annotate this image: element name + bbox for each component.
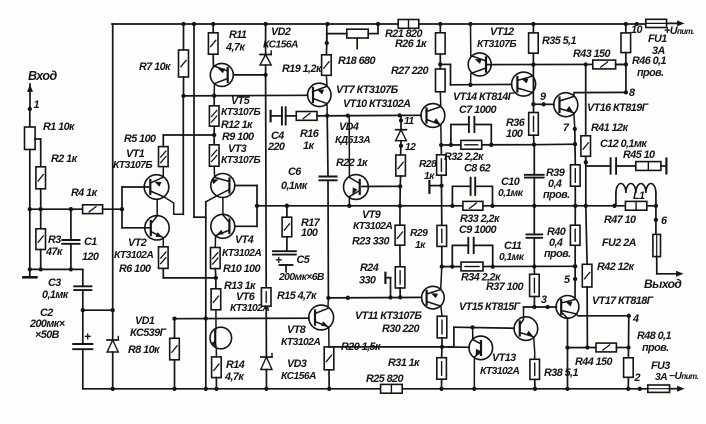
label VT10 pair — [343, 98, 411, 110]
svg-text:VD2: VD2 — [271, 26, 291, 38]
wire R15 to VD3 — [265, 306, 267, 357]
svg-text:С9 1000: С9 1000 — [459, 224, 497, 236]
svg-text:R24: R24 — [360, 262, 379, 274]
wire R22 node to mid wire — [398, 186, 402, 208]
resistor R44 — [575, 343, 629, 368]
svg-text:С8 62: С8 62 — [464, 163, 491, 175]
svg-text:47к: 47к — [45, 246, 63, 258]
svg-text:VT4: VT4 — [235, 234, 254, 246]
wire R21/R26 label — [0, 0, 1, 1]
capacitor C9 — [452, 224, 496, 267]
svg-text:VD3: VD3 — [287, 358, 307, 370]
wire +rail left vertical — [112, 24, 114, 310]
svg-text:VT10 КТ3102А: VT10 КТ3102А — [343, 98, 411, 110]
resistor R2 — [36, 153, 78, 189]
svg-text:VT14 КТ814Г: VT14 КТ814Г — [453, 91, 516, 103]
svg-text:R42 12к: R42 12к — [597, 261, 635, 273]
wire R42 to R44 node — [585, 287, 589, 350]
wire VT8 base line — [172, 316, 309, 321]
wire VT5 base to VD2 node — [233, 73, 267, 77]
resistor R28 — [419, 145, 446, 182]
svg-text:R6 100: R6 100 — [119, 263, 151, 275]
transistor VT2 — [114, 199, 169, 261]
svg-text:R26 1к: R26 1к — [395, 38, 427, 50]
resistor R35 — [529, 24, 577, 53]
capacitor C10 — [498, 145, 544, 206]
svg-text:КТ3102А: КТ3102А — [480, 366, 519, 377]
svg-text:VT11 КТ3107Б: VT11 КТ3107Б — [355, 310, 422, 322]
resistor R9 — [209, 131, 254, 166]
svg-text:0,1мк: 0,1мк — [498, 188, 524, 199]
svg-text:VT7 КТ3107Б: VT7 КТ3107Б — [336, 84, 399, 96]
wire R39 to output wire — [574, 186, 576, 206]
label R23 — [352, 236, 390, 248]
transistor VT14 — [453, 72, 536, 103]
resistor R6 — [119, 247, 168, 275]
svg-text:+: + — [275, 253, 282, 267]
wire R1 to lower node — [28, 150, 32, 272]
wire VT17 collector to rail — [565, 318, 569, 389]
svg-text:1: 1 — [34, 99, 40, 111]
svg-text:2: 2 — [634, 372, 641, 384]
transistor VT7 — [308, 75, 399, 115]
svg-text:С7 1000: С7 1000 — [459, 104, 497, 116]
wire node7 down to feedback wire — [574, 129, 576, 144]
resistor R12 — [209, 96, 253, 131]
wire R24 to VT11 base wire — [398, 288, 402, 300]
wire R41 to C12 node — [584, 156, 588, 164]
main output wire — [257, 204, 658, 208]
svg-text:200мк×6В: 200мк×6В — [278, 272, 325, 283]
svg-text:3А: 3А — [655, 372, 667, 383]
svg-text:0,1мк: 0,1мк — [281, 180, 308, 192]
capacitor C11 — [499, 206, 542, 267]
terminal bar C4 — [270, 111, 272, 121]
svg-text:КД513А: КД513А — [335, 135, 370, 146]
svg-text:VT2: VT2 — [128, 237, 147, 249]
svg-text:пров.: пров. — [543, 189, 570, 201]
node 11 — [399, 116, 415, 127]
svg-text:R28: R28 — [419, 159, 437, 170]
svg-text:FU2 2А: FU2 2А — [602, 237, 637, 249]
svg-text:пров.: пров. — [637, 67, 664, 79]
svg-text:×50В: ×50В — [35, 329, 60, 341]
svg-text:R29: R29 — [410, 228, 428, 239]
node 4 — [627, 313, 639, 325]
svg-text:8: 8 — [629, 87, 635, 99]
resistor R7 — [139, 24, 189, 77]
svg-text:10: 10 — [631, 24, 642, 36]
resistor R34 wire — [442, 264, 578, 269]
wire VT16 collector to node 8 — [574, 91, 626, 93]
svg-text:Выход: Выход — [644, 277, 681, 291]
diode VD4 — [335, 115, 406, 146]
resistor R39 — [543, 144, 580, 201]
wire R16 to VT10 base — [317, 113, 421, 118]
resistor R47 in output wire — [604, 201, 647, 226]
capacitor C2 electrolytic — [29, 307, 92, 389]
transistor VT3 — [206, 143, 261, 202]
svg-text:1к: 1к — [303, 140, 314, 152]
resistor R1 — [25, 121, 76, 150]
transistor VT6 — [210, 291, 269, 357]
label VT11/R30 done — [0, 0, 1, 1]
resistor R44 wire — [568, 347, 597, 349]
node 2 — [634, 372, 641, 384]
svg-text:R44 150: R44 150 — [575, 356, 613, 368]
resistor R18 — [327, 24, 378, 67]
node 12 — [399, 142, 416, 153]
svg-text:R19 1,2к: R19 1,2к — [282, 63, 322, 75]
svg-text:R46 0,1: R46 0,1 — [632, 55, 667, 67]
svg-text:R48 0,1: R48 0,1 — [637, 330, 672, 342]
resistor R13 — [211, 278, 256, 310]
svg-text:VT17 КТ818Г: VT17 КТ818Г — [592, 295, 655, 307]
svg-text:R16: R16 — [300, 128, 320, 140]
svg-text:VT12: VT12 — [490, 26, 514, 38]
wire VT17 emitter to node 4 — [578, 315, 629, 317]
wire R2 to R4 rail — [40, 189, 42, 209]
svg-text:120: 120 — [82, 251, 99, 263]
svg-text:R3: R3 — [48, 234, 61, 246]
wire R30 node jog up to VT15 base wire — [448, 327, 454, 347]
wire R35 column to node 9 — [531, 53, 535, 106]
resistor R48 — [624, 330, 672, 389]
svg-text:VT5: VT5 — [231, 95, 251, 107]
terminal tap R28/R29 — [429, 181, 443, 193]
wire horizontal R4 rail — [30, 207, 83, 211]
resistor R46 — [621, 24, 667, 79]
resistor R43 — [573, 48, 626, 69]
terminal tap R24 — [385, 273, 390, 298]
resistor R25 in rail — [366, 373, 404, 393]
transistor VT11 — [355, 267, 444, 322]
resistor R4 — [71, 187, 103, 214]
wire VD2 node down to R15 — [265, 75, 268, 288]
svg-text:R5 100: R5 100 — [124, 133, 156, 145]
wire R10 to junction — [214, 269, 217, 278]
svg-text:R37 100: R37 100 — [486, 281, 524, 293]
resistor R24 — [359, 245, 405, 288]
svg-text:4,7к: 4,7к — [224, 371, 244, 383]
svg-text:КТ3107Б: КТ3107Б — [113, 160, 152, 171]
svg-text:330: 330 — [359, 275, 376, 287]
wire VT9 base — [362, 185, 400, 187]
svg-text:1к: 1к — [415, 240, 426, 251]
svg-text:VT9: VT9 — [362, 209, 381, 221]
ground — [23, 269, 36, 277]
svg-text:3: 3 — [541, 294, 547, 306]
node 6 — [654, 215, 668, 227]
svg-text:R10 100: R10 100 — [223, 263, 261, 275]
wire VT2/VT4 emitter junction — [163, 276, 218, 280]
node 10 — [631, 24, 642, 36]
feedback wire — [534, 142, 577, 146]
svg-text:R30 220: R30 220 — [382, 323, 420, 335]
svg-text:R15 4,7к: R15 4,7к — [277, 290, 317, 302]
resistor R23 — [395, 206, 405, 245]
svg-text:КС156А: КС156А — [263, 40, 298, 51]
bottom -supply rail — [83, 387, 648, 391]
svg-text:FU3: FU3 — [651, 360, 670, 372]
resistor R34 — [461, 262, 501, 283]
svg-text:пров.: пров. — [642, 342, 669, 354]
node R30/R31 — [440, 338, 444, 349]
long bus from rail — [194, 24, 206, 389]
svg-text:С10: С10 — [501, 176, 520, 188]
svg-text:R27 220: R27 220 — [391, 65, 429, 77]
capacitor C6 — [281, 166, 337, 298]
transistor VT10 — [421, 92, 445, 145]
transistor VT5 — [210, 63, 260, 118]
node 9 — [540, 91, 546, 103]
transistor VT8 — [281, 298, 334, 348]
zener VD1 — [107, 310, 167, 391]
wire VT11 base wire — [326, 295, 421, 300]
svg-text:L1: L1 — [633, 190, 645, 202]
resistor R32 — [444, 140, 484, 163]
svg-text:R35 5,1: R35 5,1 — [542, 35, 577, 47]
wire node4 down to R48 — [626, 316, 630, 350]
node R12/R9 — [212, 126, 216, 145]
wire node5 to VT17 — [574, 279, 576, 299]
resistor R21 in rail — [385, 20, 423, 41]
node 8 — [624, 87, 635, 99]
capacitor C3 — [42, 269, 91, 301]
resistor R3 — [36, 209, 63, 269]
svg-text:4,7к: 4,7к — [225, 42, 245, 54]
transistor VT12 — [468, 24, 516, 85]
node 1 — [28, 99, 40, 111]
transistor VT9 — [344, 116, 393, 232]
wire C2 node to VD1 — [83, 308, 115, 312]
svg-text:R32 2,2к: R32 2,2к — [444, 151, 484, 163]
resistor R22 — [336, 141, 405, 176]
svg-text:+: + — [84, 330, 91, 344]
zener VD2 — [260, 24, 298, 75]
node 5 — [564, 274, 571, 286]
svg-text:9: 9 — [540, 91, 546, 103]
svg-text:пров.: пров. — [544, 248, 571, 260]
wire R5 top to mirror node — [163, 135, 214, 147]
svg-text:220: 220 — [267, 141, 285, 153]
svg-text:R45 10: R45 10 — [623, 149, 655, 161]
svg-text:R4 1к: R4 1к — [71, 187, 98, 199]
transistor VT17 — [556, 295, 655, 318]
resistor R19 — [282, 24, 331, 75]
wire VT15 base wire — [454, 325, 514, 329]
svg-text:КС156А: КС156А — [281, 371, 316, 382]
resistor R15 — [261, 288, 317, 306]
fuse FU2 — [602, 206, 661, 274]
svg-text:С6: С6 — [288, 166, 302, 178]
svg-text:4: 4 — [632, 313, 639, 325]
svg-text:R25 820: R25 820 — [366, 373, 404, 385]
wire VT7 collector column — [326, 115, 329, 177]
resistor R10 — [211, 248, 261, 276]
wire R20 top to R30/R31 node — [329, 346, 442, 348]
capacitor C4 — [267, 107, 286, 153]
wire base bracket VT3/VT4 — [235, 186, 259, 227]
node 7 — [563, 122, 577, 134]
svg-text:R1 10к: R1 10к — [43, 121, 75, 133]
svg-text:КС539Г: КС539Г — [130, 327, 168, 339]
zener VD3 — [261, 354, 316, 389]
wire C3 to C2 node — [81, 290, 85, 312]
resistor R8 — [128, 319, 179, 391]
wire R4 to VT1/VT2 base bracket — [103, 208, 122, 210]
node 3 — [541, 294, 550, 309]
resistor R27 — [391, 65, 445, 92]
wire node 8 up to R46 — [624, 62, 628, 92]
svg-text:R38 5,1: R38 5,1 — [544, 367, 579, 379]
svg-text:R2 1к: R2 1к — [51, 153, 78, 165]
transistor VT15 — [459, 301, 538, 359]
resistor R16 — [286, 112, 320, 153]
svg-text:R11: R11 — [229, 29, 247, 41]
svg-text:КТ3102А: КТ3102А — [281, 337, 320, 348]
resistor R17 — [282, 204, 321, 239]
svg-text:КТ3102А: КТ3102А — [114, 250, 153, 261]
resistor R42 — [582, 206, 634, 287]
capacitor C5 electrolytic — [273, 237, 325, 283]
transistor VT1 — [113, 148, 183, 214]
svg-text:R18 680: R18 680 — [338, 55, 376, 67]
resistor R38 — [530, 359, 579, 389]
svg-text:Вход: Вход — [28, 69, 57, 83]
svg-text:С3: С3 — [48, 277, 61, 289]
wire node to VT7 base — [184, 94, 308, 98]
svg-text:R43 150: R43 150 — [573, 48, 611, 60]
resistor R31 — [388, 347, 446, 389]
node VT10/R28 — [439, 143, 443, 147]
wire R11 to VT5 — [212, 54, 214, 67]
wire node 3 to VT17 base — [524, 297, 557, 310]
svg-text:VT1: VT1 — [126, 148, 145, 160]
wire VT12 base to R43 — [486, 62, 626, 66]
svg-text:R23 330: R23 330 — [352, 236, 390, 248]
resistor R41 — [581, 65, 629, 157]
resistor R40 — [544, 206, 580, 260]
svg-text:С5: С5 — [297, 254, 311, 266]
wire R1 to R2 tap — [35, 139, 41, 167]
resistor R37 — [486, 267, 539, 297]
svg-text:R12 1к: R12 1к — [221, 119, 253, 131]
resistor R20 — [324, 341, 381, 389]
wire R30 node to VT13 base — [442, 346, 469, 348]
svg-text:11: 11 — [404, 116, 414, 127]
svg-text:VT3: VT3 — [228, 143, 247, 155]
svg-text:R8 10к: R8 10к — [128, 344, 160, 356]
svg-text:R7 10к: R7 10к — [139, 61, 171, 73]
svg-text:КТ3107Б: КТ3107Б — [221, 107, 260, 118]
svg-text:VT15 КТ815Г: VT15 КТ815Г — [459, 301, 522, 313]
fuse FU3 — [648, 360, 670, 392]
inductor L1 — [616, 184, 656, 206]
svg-text:0,1мк: 0,1мк — [42, 289, 69, 301]
resistor R33 in output wire — [460, 201, 500, 225]
resistor R14 — [212, 357, 245, 389]
transistor VT4 — [211, 198, 262, 259]
capacitor C7 — [451, 104, 497, 145]
resistor R29 — [410, 225, 447, 251]
svg-text:КТ3102А: КТ3102А — [222, 248, 261, 259]
fuse FU1 — [646, 19, 667, 57]
wire FU3 to -Upit arrow — [669, 371, 698, 392]
wire C12 node down to output wire — [585, 162, 587, 206]
wire R6 to lower wire — [162, 268, 164, 278]
transistor VT13 — [469, 327, 519, 388]
svg-text:R9 100: R9 100 — [222, 131, 254, 143]
svg-text:КТ3107Б: КТ3107Б — [477, 39, 516, 50]
svg-text:КТ3107Б: КТ3107Б — [221, 155, 260, 166]
resistor R30 — [382, 316, 447, 338]
svg-text:С11: С11 — [504, 240, 522, 252]
wire R40 to node 5 — [573, 245, 577, 281]
top +supply rail — [112, 22, 646, 26]
svg-text:+Uпит.: +Uпит. — [664, 25, 694, 37]
capacitor C1 — [62, 209, 99, 269]
svg-text:100: 100 — [506, 128, 523, 140]
wire FU1 to +Upit arrow — [664, 20, 694, 37]
wire R32 rail — [441, 143, 534, 147]
capacitor C12 — [586, 138, 648, 174]
wire base bracket VT1/VT2 — [120, 187, 150, 228]
svg-text:КТ3102А: КТ3102А — [353, 221, 392, 232]
svg-text:VT13: VT13 — [492, 352, 516, 364]
resistor R11 — [208, 24, 247, 54]
input terminal Вход with arrow — [27, 69, 57, 109]
resistor R5 — [124, 133, 168, 167]
svg-text:VD1: VD1 — [135, 315, 155, 327]
wire R28 to R29 — [440, 175, 442, 225]
output arrow Выход — [644, 271, 684, 291]
capacitor C8 — [450, 163, 494, 209]
transistor VT16 — [554, 93, 650, 129]
svg-text:100: 100 — [301, 227, 318, 239]
svg-text:R22 1к: R22 1к — [336, 157, 368, 169]
wire R36 to C7/R32 wire — [532, 135, 536, 147]
svg-text:VT16 КТ819Г: VT16 КТ819Г — [587, 102, 650, 114]
wire input node to R1 — [29, 109, 31, 127]
wire VT14 base wire — [451, 83, 512, 87]
wire R22 to VT9 base node — [398, 176, 402, 188]
svg-text:R31 1к: R31 1к — [388, 357, 420, 369]
svg-text:R47 10: R47 10 — [604, 214, 636, 226]
wire R7 node down to VT1 collector — [182, 96, 184, 214]
wire VT9 emitter to mid wire — [347, 204, 351, 208]
svg-text:0,1мк: 0,1мк — [499, 252, 525, 263]
svg-text:VT6: VT6 — [236, 291, 256, 303]
resistor R45 — [616, 149, 666, 173]
svg-text:R14: R14 — [226, 359, 245, 371]
wire R29 to R34 wire — [440, 246, 444, 268]
resistor R26 — [395, 24, 445, 54]
svg-text:12: 12 — [405, 142, 416, 153]
wire R7 to node — [181, 77, 185, 98]
wire node9 to VT16 base — [533, 102, 554, 106]
svg-text:С1: С1 — [84, 236, 97, 248]
svg-text:VT8: VT8 — [287, 324, 306, 336]
svg-text:R41 12к: R41 12к — [591, 122, 629, 134]
wire bottom of R3/C1 — [30, 267, 83, 271]
node R26/R27 — [438, 54, 450, 85]
resistor R36 — [506, 104, 538, 140]
svg-text:−Uпит.: −Uпит. — [669, 371, 698, 382]
